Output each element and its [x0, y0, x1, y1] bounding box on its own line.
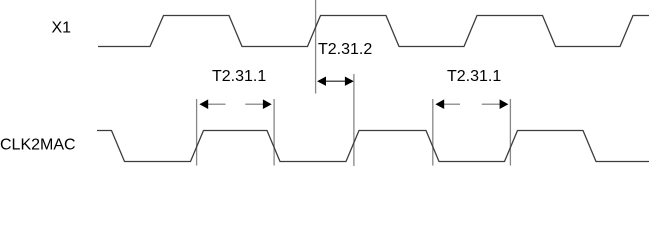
svg-text:T2.31.2: T2.31.2 — [318, 41, 372, 58]
svg-text:X1: X1 — [52, 20, 72, 37]
svg-text:CLK2MAC: CLK2MAC — [0, 137, 76, 154]
svg-text:T2.31.1: T2.31.1 — [447, 68, 501, 85]
svg-text:T2.31.1: T2.31.1 — [212, 68, 266, 85]
